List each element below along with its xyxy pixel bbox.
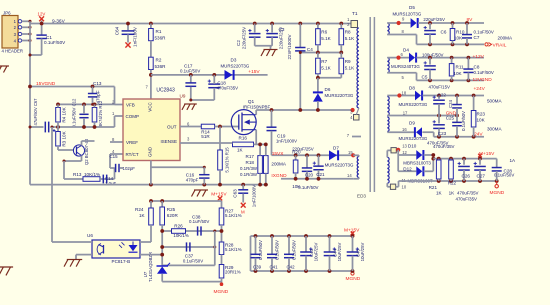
svg-text:10uF/25V: 10uF/25V	[337, 243, 342, 262]
svg-text:C64: C64	[115, 26, 120, 35]
svg-text:0.1uF/50V: 0.1uF/50V	[44, 40, 66, 45]
svg-text:100uF/50V: 100uF/50V	[422, 52, 444, 57]
svg-text:U9: U9	[180, 94, 186, 99]
svg-text:220uF/25V: 220uF/25V	[423, 17, 445, 22]
svg-text:R17: R17	[246, 154, 255, 159]
svg-text:1K: 1K	[449, 190, 456, 195]
svg-text:3K74/1% R12: 3K74/1% R12	[98, 100, 103, 127]
svg-text:ISENSE: ISENSE	[160, 139, 177, 144]
svg-text:12V: 12V	[38, 12, 46, 17]
svg-text:C22: C22	[438, 92, 447, 97]
svg-text:C6: C6	[441, 30, 447, 35]
svg-text:22nF/1000V: 22nF/1000V	[287, 34, 292, 60]
svg-text:+24V: +24V	[474, 86, 486, 92]
svg-text:470uF/35V: 470uF/35V	[457, 190, 479, 195]
svg-text:C8: C8	[474, 64, 480, 69]
svg-text:14: 14	[347, 173, 352, 178]
svg-text:R6: R6	[321, 30, 327, 35]
svg-text:C13: C13	[93, 81, 102, 86]
svg-text:470uF/35V: 470uF/35V	[433, 144, 455, 149]
svg-text:C20: C20	[305, 173, 314, 178]
svg-text:1K: 1K	[139, 213, 146, 218]
svg-text:200MA: 200MA	[498, 36, 513, 41]
svg-text:R25: R25	[167, 207, 176, 212]
svg-text:470uF/15V: 470uF/15V	[429, 84, 451, 89]
svg-text:500MA: 500MA	[487, 99, 502, 104]
svg-text:C15: C15	[110, 154, 119, 159]
svg-text:536R: 536R	[155, 36, 167, 41]
svg-text:0.1R/3W: 0.1R/3W	[240, 172, 258, 177]
svg-text:16: 16	[402, 127, 407, 132]
svg-text:D6: D6	[325, 87, 331, 92]
svg-text:0.1uF/50V: 0.1uF/50V	[183, 259, 203, 264]
svg-text:10K: 10K	[477, 117, 486, 122]
svg-text:470uF/35V: 470uF/35V	[217, 85, 239, 90]
svg-text:R22: R22	[448, 180, 457, 185]
svg-text:47uF/50V C67: 47uF/50V C67	[33, 98, 38, 126]
svg-text:C7: C7	[474, 35, 480, 40]
svg-text:5.1K/1%: 5.1K/1%	[225, 213, 242, 218]
svg-text:5.1K/1%: 5.1K/1%	[225, 247, 242, 252]
svg-text:1nF/1000V: 1nF/1000V	[276, 139, 297, 144]
svg-text:R16: R16	[239, 136, 248, 141]
svg-text:C41: C41	[270, 265, 279, 270]
svg-text:R1: R1	[156, 29, 162, 34]
svg-text:13: 13	[402, 143, 407, 148]
svg-text:R26: R26	[174, 224, 183, 229]
svg-text:4 HEADER: 4 HEADER	[2, 49, 24, 54]
svg-text:RT/CT: RT/CT	[126, 152, 139, 157]
svg-text:220uF/25V: 220uF/25V	[242, 26, 247, 49]
svg-text:0.1uF/50V: 0.1uF/50V	[180, 69, 200, 74]
svg-text:MURS220T3G: MURS220T3G	[325, 93, 354, 98]
svg-text:10uF/25V: 10uF/25V	[314, 243, 319, 262]
svg-text:MURS120T3G: MURS120T3G	[393, 12, 422, 17]
svg-text:1A: 1A	[510, 158, 517, 163]
svg-text:536R: 536R	[155, 64, 167, 69]
svg-text:10uF/25V: 10uF/25V	[360, 243, 365, 262]
svg-text:D8: D8	[409, 85, 415, 90]
svg-text:10K/1%: 10K/1%	[173, 233, 188, 238]
svg-text:MGND: MGND	[490, 190, 505, 196]
svg-text:R2: R2	[156, 58, 162, 63]
svg-text:C21: C21	[316, 172, 325, 177]
svg-text:D5: D5	[409, 5, 415, 10]
svg-text:MGND: MGND	[214, 289, 229, 295]
svg-text:VREF: VREF	[126, 140, 138, 145]
svg-text:COMP: COMP	[126, 114, 140, 119]
svg-text:0.1uF/50V: 0.1uF/50V	[494, 172, 514, 177]
svg-text:D3: D3	[231, 58, 237, 63]
svg-text:C23: C23	[438, 131, 447, 136]
svg-text:1K: 1K	[436, 190, 443, 195]
svg-text:0.1uF/50V: 0.1uF/50V	[298, 185, 318, 190]
svg-text:C5: C5	[422, 75, 428, 80]
svg-text:R9: R9	[345, 59, 351, 64]
svg-text:102pF: 102pF	[123, 166, 136, 171]
svg-text:0.1uF/50V C12: 0.1uF/50V C12	[72, 98, 77, 128]
svg-text:5.1K: 5.1K	[345, 36, 355, 41]
svg-text:C39: C39	[253, 265, 262, 270]
svg-text:18: 18	[402, 91, 407, 96]
svg-text:C24: C24	[448, 99, 453, 107]
svg-text:MURS240T3G: MURS240T3G	[391, 64, 420, 69]
svg-text:U6: U6	[87, 233, 93, 238]
svg-text:10K: 10K	[454, 36, 463, 41]
svg-text:D9: D9	[409, 121, 415, 126]
svg-text:470pF: 470pF	[186, 177, 199, 182]
svg-text:R3 10K: R3 10K	[62, 130, 67, 146]
svg-text:20R/1%: 20R/1%	[225, 270, 241, 275]
svg-text:C2: C2	[236, 40, 241, 46]
svg-text:MURS220T3G: MURS220T3G	[325, 162, 354, 167]
svg-text:0.1uF/50V: 0.1uF/50V	[461, 111, 466, 131]
svg-text:5.1K/1% R15: 5.1K/1% R15	[225, 147, 230, 173]
svg-text:T1: T1	[352, 11, 358, 17]
svg-text:VRAIL: VRAIL	[493, 43, 507, 49]
svg-text:MBRS3100T3: MBRS3100T3	[403, 161, 431, 166]
svg-text:D4: D4	[403, 48, 409, 53]
svg-text:R7: R7	[321, 59, 327, 64]
svg-text:5.1K: 5.1K	[321, 36, 331, 41]
svg-text:5.1K: 5.1K	[345, 66, 355, 71]
svg-text:IRFI150NPBF: IRFI150NPBF	[243, 105, 271, 110]
svg-text:9-36V: 9-36V	[52, 19, 66, 25]
svg-text:+15V: +15V	[248, 69, 260, 75]
svg-text:R23: R23	[477, 111, 486, 116]
svg-text:TL431AQDBZR: TL431AQDBZR	[148, 252, 153, 282]
svg-text:VCC: VCC	[148, 102, 153, 112]
svg-text:R8: R8	[345, 30, 351, 35]
svg-text:1K: 1K	[237, 148, 244, 153]
svg-text:620R: 620R	[167, 213, 179, 218]
svg-text:12VGND: 12VGND	[473, 77, 493, 83]
svg-text:MURS220T3G: MURS220T3G	[399, 102, 428, 107]
svg-text:17: 17	[403, 110, 408, 115]
svg-text:0.1uF/50V: 0.1uF/50V	[474, 70, 494, 75]
svg-text:220uF/25V: 220uF/25V	[279, 26, 284, 49]
svg-text:Q2 BC807-40: Q2 BC807-40	[84, 138, 89, 165]
svg-text:R11: R11	[456, 64, 465, 69]
svg-text:C42: C42	[287, 265, 296, 270]
svg-text:MGND: MGND	[346, 276, 361, 282]
svg-text:0.1uF/50V: 0.1uF/50V	[189, 219, 209, 224]
svg-text:0.1uF/50V: 0.1uF/50V	[275, 240, 280, 260]
svg-text:D7: D7	[333, 146, 339, 151]
svg-text:OUT: OUT	[167, 124, 177, 129]
svg-text:ED3: ED3	[357, 194, 366, 199]
svg-text:C63: C63	[233, 189, 238, 198]
svg-text:10K/1%: 10K/1%	[84, 172, 100, 177]
svg-text:+12V: +12V	[473, 54, 485, 60]
svg-text:1nF/100V: 1nF/100V	[133, 26, 138, 47]
svg-text:15: 15	[348, 150, 353, 155]
svg-text:D12: D12	[403, 166, 412, 171]
svg-text:R24: R24	[135, 207, 144, 212]
svg-text:10K: 10K	[453, 71, 462, 76]
svg-text:0.1R/3W: 0.1R/3W	[240, 166, 258, 171]
svg-text:R21: R21	[429, 185, 438, 190]
svg-text:1nF/1000V: 1nF/1000V	[252, 184, 257, 207]
svg-text:GND: GND	[148, 146, 153, 157]
svg-text:0.1uF/50V: 0.1uF/50V	[258, 240, 263, 260]
svg-text:UC2843: UC2843	[156, 88, 175, 94]
svg-text:15VX: 15VX	[272, 151, 285, 157]
svg-text:5.1K: 5.1K	[321, 66, 331, 71]
svg-text:51R: 51R	[201, 134, 210, 139]
svg-text:D10: D10	[408, 143, 417, 148]
svg-text:R18: R18	[246, 160, 255, 165]
svg-text:C27: C27	[477, 174, 486, 179]
svg-text:R13: R13	[73, 172, 82, 177]
svg-text:0.1uF/50V: 0.1uF/50V	[474, 30, 494, 35]
svg-text:C26: C26	[462, 174, 471, 179]
svg-text:MURS220T3G: MURS220T3G	[221, 63, 250, 68]
svg-text:MURS220T3G: MURS220T3G	[399, 136, 428, 141]
svg-text:VFB: VFB	[126, 102, 135, 107]
svg-text:0.1uF/50V: 0.1uF/50V	[292, 240, 297, 260]
svg-text:470uF/35V: 470uF/35V	[456, 196, 478, 201]
svg-text:C25: C25	[446, 116, 455, 121]
svg-text:PC817-B: PC817-B	[112, 259, 131, 264]
svg-text:10: 10	[402, 184, 407, 189]
svg-text:JP6: JP6	[3, 11, 11, 16]
svg-text:220uF/25V: 220uF/25V	[292, 146, 314, 151]
svg-text:C4: C4	[307, 47, 313, 52]
svg-text:R4 10K: R4 10K	[62, 106, 67, 122]
svg-text:300MA: 300MA	[487, 127, 502, 132]
svg-text:200MA: 200MA	[271, 161, 286, 166]
